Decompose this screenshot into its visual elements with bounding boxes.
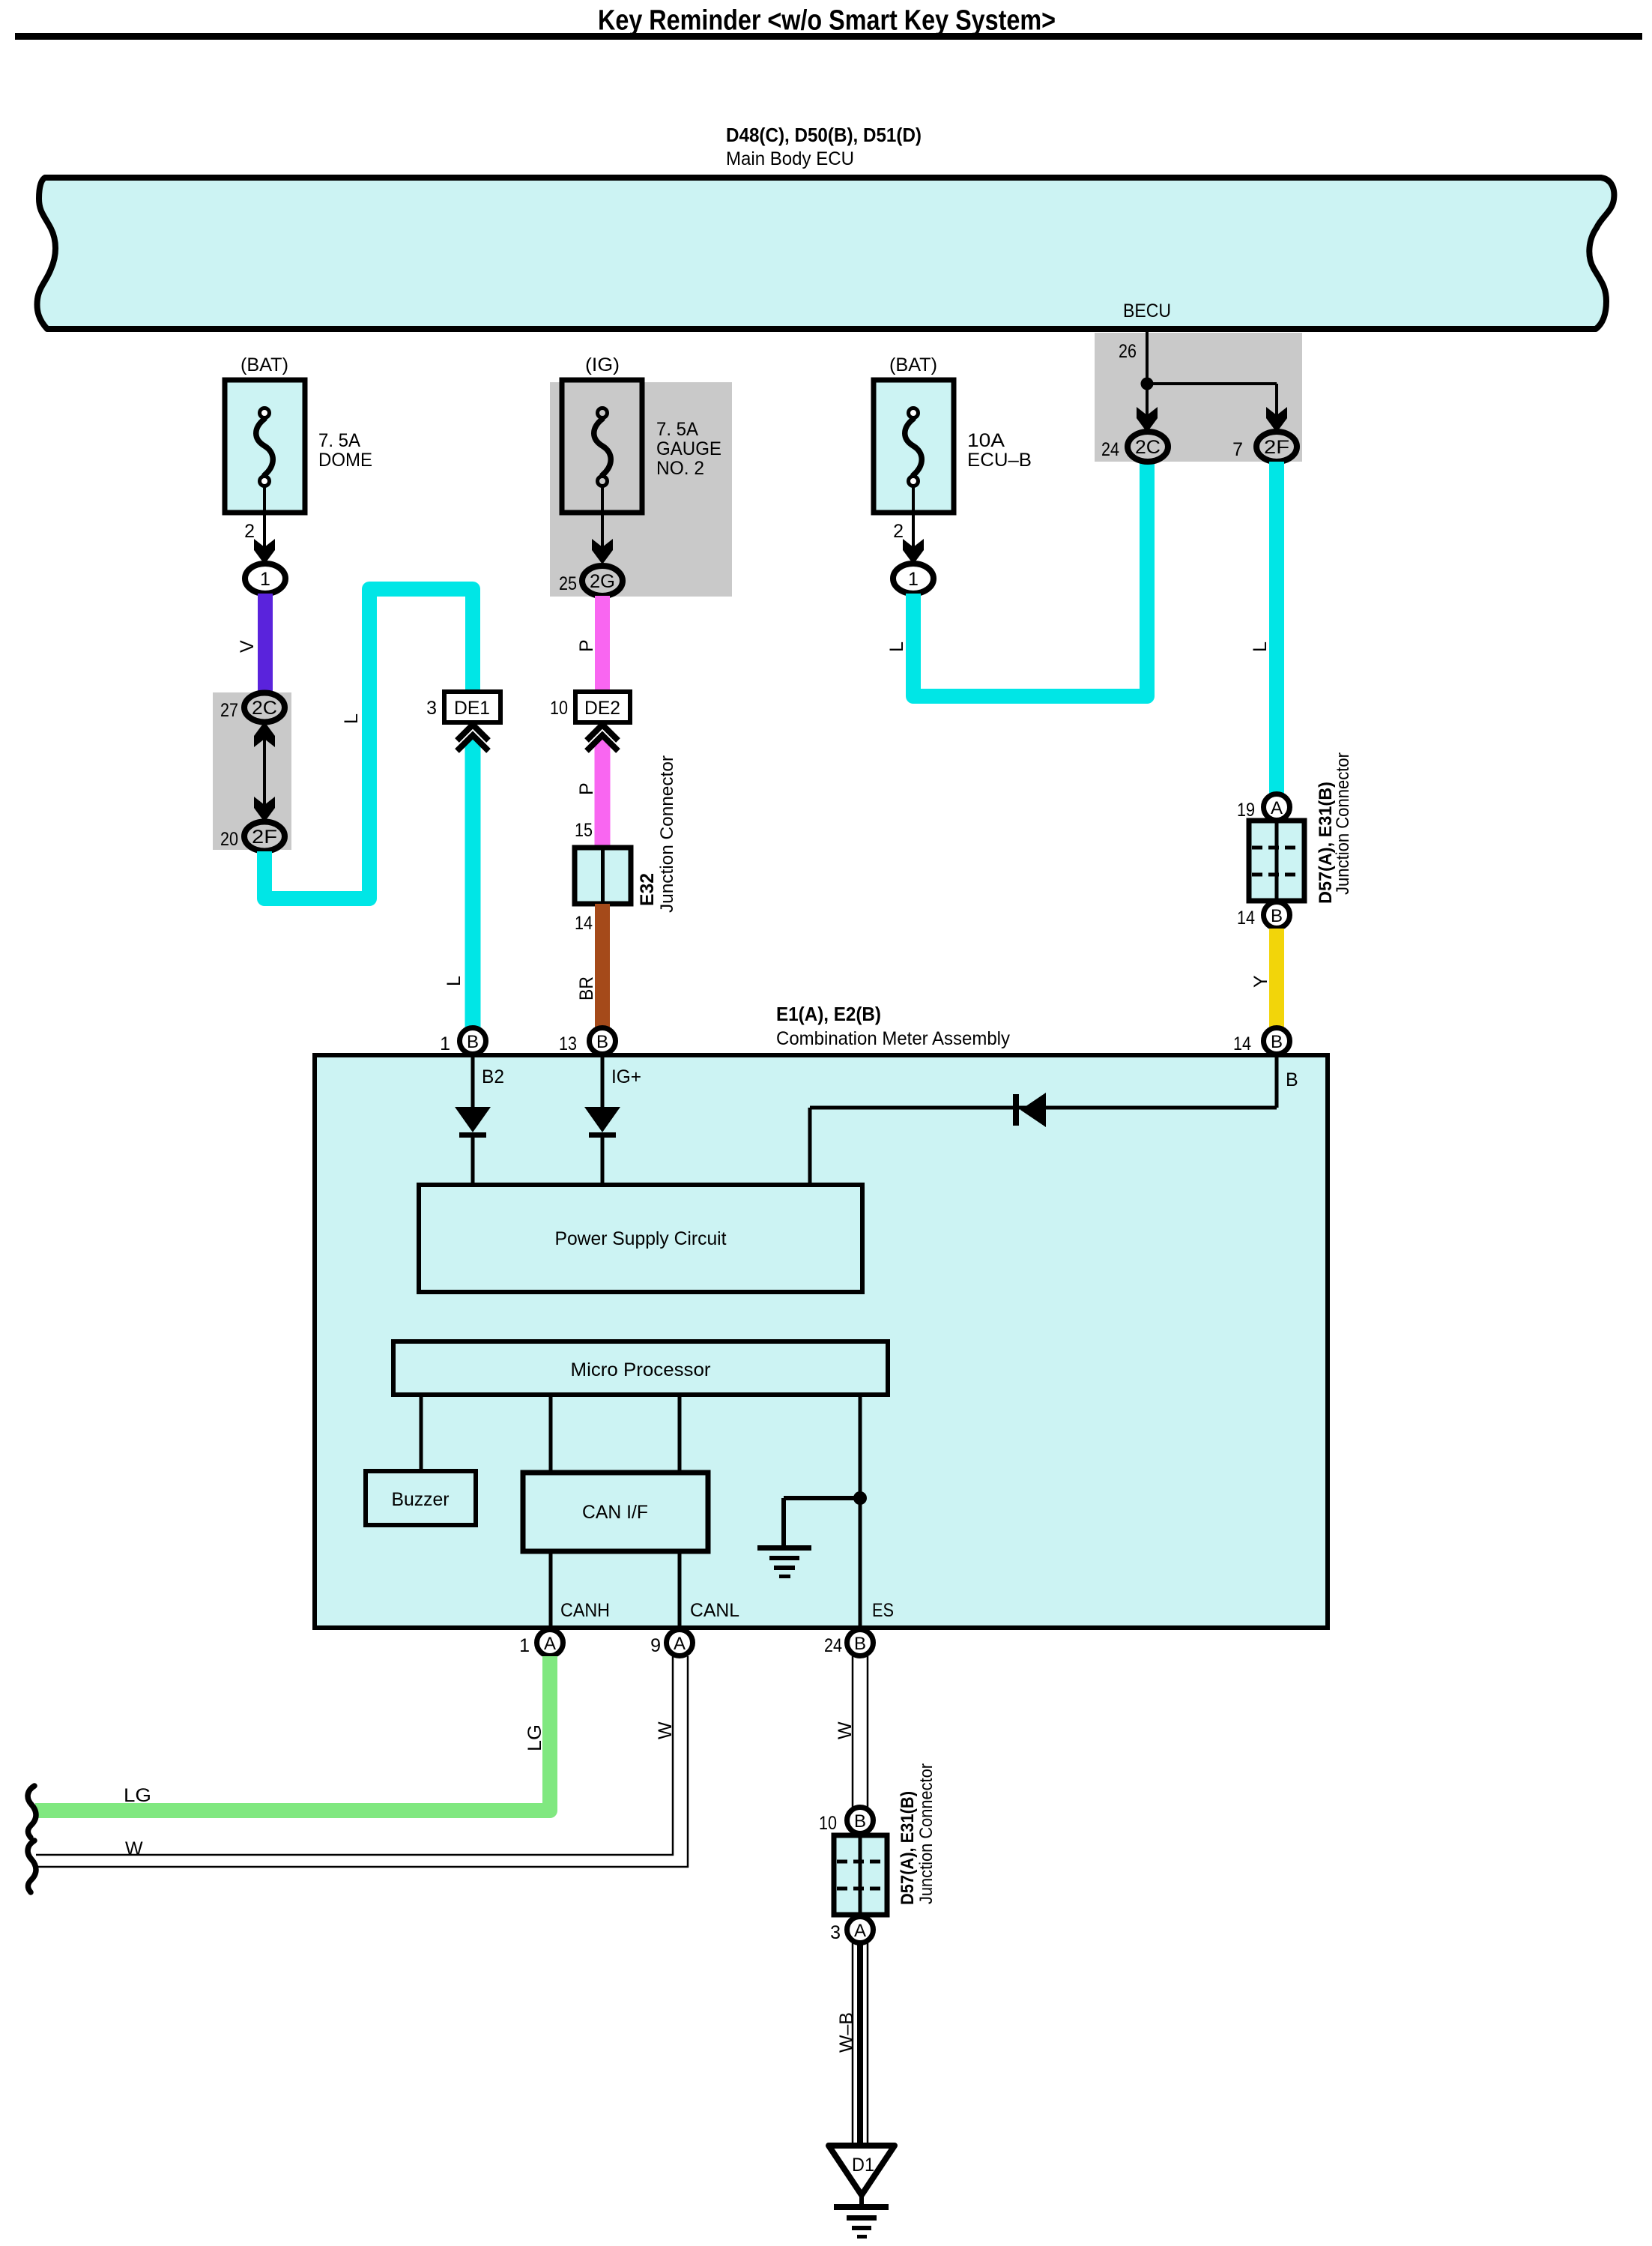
- svg-text:2: 2: [244, 521, 255, 542]
- svg-text:Main Body ECU: Main Body ECU: [726, 148, 854, 169]
- svg-text:LG: LG: [524, 1724, 545, 1751]
- svg-text:D57(A), E31(B): D57(A), E31(B): [898, 1791, 918, 1905]
- wire fuse DOME to connector 1: [263, 486, 266, 552]
- svg-text:Junction Connector: Junction Connector: [916, 1763, 937, 1904]
- svg-text:27: 27: [220, 700, 238, 721]
- svg-text:W: W: [835, 1721, 856, 1739]
- svg-text:A: A: [544, 1634, 556, 1654]
- wire W (white) CANL: [36, 1656, 673, 1855]
- svg-text:Combination Meter Assembly: Combination Meter Assembly: [776, 1028, 1010, 1049]
- svg-text:14: 14: [1233, 1033, 1251, 1054]
- svg-text:10: 10: [550, 698, 568, 719]
- svg-text:BECU: BECU: [1123, 301, 1171, 321]
- svg-text:W–B: W–B: [836, 2012, 857, 2053]
- wire P (pink) DE2 to E32: [595, 740, 611, 848]
- wire L (cyan) DE1 to meter pin 1: [465, 740, 481, 1028]
- fuse 7.5A GAUGE NO.2 (IG): [562, 380, 642, 513]
- connector DE1 pin 3: [444, 692, 500, 722]
- micro processor box: [393, 1341, 888, 1395]
- svg-text:15: 15: [575, 820, 593, 841]
- svg-text:1: 1: [260, 569, 270, 590]
- meter circle B pin 24: [847, 1630, 874, 1656]
- break symbol LG: [28, 1786, 36, 1838]
- svg-text:B2: B2: [482, 1066, 504, 1087]
- svg-text:L: L: [341, 713, 362, 724]
- svg-text:NO. 2: NO. 2: [656, 458, 704, 479]
- svg-text:2F: 2F: [252, 827, 277, 848]
- connector DE2 pin 10: [575, 692, 630, 722]
- svg-text:(IG): (IG): [585, 354, 620, 375]
- svg-text:W: W: [655, 1721, 676, 1739]
- junction connector D57(A) E31(B) circle A pin 19: [1264, 794, 1290, 821]
- connector oval 2F pin 7: [1256, 432, 1297, 462]
- wire MP to CAN IF (CANH): [549, 1395, 553, 1473]
- svg-text:19: 19: [1237, 800, 1255, 821]
- svg-text:Power Supply Circuit: Power Supply Circuit: [555, 1228, 727, 1249]
- power supply circuit box: [419, 1185, 862, 1292]
- svg-text:13: 13: [559, 1033, 577, 1054]
- svg-text:CAN I/F: CAN I/F: [582, 1502, 648, 1523]
- svg-text:Micro Processor: Micro Processor: [571, 1359, 711, 1380]
- svg-text:B: B: [467, 1032, 479, 1052]
- wire W (white) ES to junction connector: [852, 1656, 854, 1808]
- svg-text:24: 24: [824, 1635, 842, 1656]
- wire LG (green) CANH: [35, 1656, 550, 1811]
- svg-text:E1(A), E2(B): E1(A), E2(B): [776, 1003, 881, 1025]
- BECU junction block (gray): [1095, 333, 1302, 462]
- wire L (cyan) 2F to junction connector A: [1269, 462, 1284, 794]
- ES junction dot: [853, 1491, 867, 1505]
- svg-text:ES: ES: [872, 1600, 894, 1621]
- meter circle B pin 1: [460, 1028, 486, 1054]
- diode D-B2: [471, 1054, 475, 1107]
- svg-text:Key Reminder <w/o Smart Key Sy: Key Reminder <w/o Smart Key System>: [598, 5, 1056, 37]
- svg-text:2F: 2F: [1264, 437, 1289, 458]
- svg-text:10: 10: [819, 1813, 837, 1834]
- svg-text:Y: Y: [1250, 975, 1271, 988]
- wire branch to 2F: [1147, 382, 1277, 385]
- svg-text:2G: 2G: [590, 571, 615, 592]
- svg-text:W: W: [125, 1838, 143, 1859]
- svg-text:2: 2: [893, 521, 904, 542]
- svg-text:Buzzer: Buzzer: [392, 1489, 450, 1510]
- junction connector E32: [575, 848, 631, 904]
- svg-text:14: 14: [1237, 908, 1255, 929]
- CAN I/F box: [523, 1473, 708, 1551]
- diode D-IG: [601, 1054, 605, 1107]
- svg-text:L: L: [444, 976, 465, 986]
- svg-text:B: B: [596, 1032, 608, 1052]
- svg-text:P: P: [576, 782, 597, 795]
- svg-text:B: B: [1271, 906, 1283, 926]
- svg-text:A: A: [674, 1634, 686, 1654]
- ground D1: [829, 2146, 895, 2195]
- svg-text:GAUGE: GAUGE: [656, 438, 721, 459]
- wire MP to buzzer: [420, 1395, 423, 1471]
- svg-text:1: 1: [908, 569, 919, 590]
- svg-text:D1: D1: [852, 2155, 874, 2176]
- svg-text:DE2: DE2: [584, 698, 620, 719]
- wire L (cyan) ECU-B to 2C: [913, 462, 1147, 696]
- wire ES: [859, 1395, 862, 1628]
- svg-text:D48(C), D50(B), D51(D): D48(C), D50(B), D51(D): [726, 124, 922, 146]
- svg-text:3: 3: [830, 1922, 841, 1943]
- instrument panel junction block (gray) with 2C/2F: [213, 692, 291, 850]
- svg-text:14: 14: [575, 913, 593, 934]
- wire BR (brown) E32 to meter pin 13: [595, 904, 610, 1028]
- svg-text:2C: 2C: [1135, 437, 1161, 458]
- meter circle B pin 14: [1264, 1028, 1290, 1054]
- connector oval 2C pin 27: [244, 693, 285, 722]
- chevrons below DE2: [587, 725, 618, 740]
- svg-text:IG+: IG+: [611, 1066, 641, 1087]
- svg-text:DOME: DOME: [318, 450, 372, 471]
- svg-text:V: V: [237, 640, 258, 653]
- connector oval 2C pin 24: [1128, 432, 1168, 462]
- svg-text:ECU–B: ECU–B: [967, 450, 1032, 471]
- junction connector D57/E31 box (bottom): [834, 1835, 887, 1915]
- circle B pin 14: [1264, 902, 1290, 929]
- svg-text:25: 25: [559, 573, 577, 594]
- wire W-B to ground: [852, 1943, 854, 2144]
- svg-text:2C: 2C: [252, 698, 277, 719]
- svg-text:L: L: [1250, 642, 1271, 652]
- wire MP to CAN IF (CANL): [678, 1395, 682, 1473]
- svg-text:24: 24: [1101, 439, 1119, 460]
- svg-text:DE1: DE1: [454, 698, 490, 719]
- svg-text:A: A: [1271, 798, 1283, 818]
- svg-text:LG: LG: [124, 1785, 151, 1806]
- wire B into meter with diode: [1275, 1054, 1279, 1108]
- chevrons below DE1: [457, 725, 488, 740]
- connector oval 1 (DOME): [245, 564, 285, 594]
- meter circle A pin 9: [667, 1630, 693, 1656]
- Main Body ECU band (D48/D50/D51): [37, 178, 1615, 329]
- wire L (cyan) 2F to DE1: [264, 589, 473, 899]
- wire V (violet): [258, 594, 273, 694]
- svg-text:B: B: [854, 1634, 866, 1654]
- svg-text:7. 5A: 7. 5A: [656, 419, 698, 440]
- connector oval 2F pin 20: [244, 822, 285, 851]
- svg-text:E32: E32: [637, 873, 658, 906]
- svg-text:9: 9: [650, 1635, 661, 1656]
- wire fuse ECU-B to connector 1: [912, 486, 915, 552]
- svg-text:10A: 10A: [967, 430, 1005, 451]
- junction dot: [1141, 378, 1154, 390]
- svg-text:1: 1: [440, 1033, 450, 1054]
- svg-text:3: 3: [426, 698, 437, 719]
- meter circle A pin 1: [537, 1630, 563, 1656]
- svg-text:1: 1: [519, 1635, 530, 1656]
- svg-text:CANH: CANH: [560, 1600, 610, 1621]
- svg-text:CANL: CANL: [690, 1600, 739, 1621]
- svg-text:P: P: [576, 639, 597, 652]
- svg-text:B: B: [1286, 1069, 1298, 1090]
- svg-text:20: 20: [220, 829, 238, 850]
- title rule: [15, 33, 1642, 40]
- svg-text:26: 26: [1119, 341, 1137, 362]
- buzzer box: [366, 1471, 476, 1525]
- internal ground: [784, 1496, 860, 1500]
- connector oval 1 (ECU-B): [893, 564, 934, 594]
- svg-text:A: A: [854, 1921, 866, 1941]
- svg-text:7: 7: [1232, 439, 1243, 460]
- svg-text:(BAT): (BAT): [240, 354, 288, 375]
- wire CANH below: [549, 1551, 553, 1628]
- meter circle B pin 13: [590, 1028, 616, 1054]
- junction connector circle B pin 10: [847, 1808, 874, 1834]
- svg-text:B: B: [854, 1811, 866, 1832]
- svg-text:7. 5A: 7. 5A: [318, 430, 360, 451]
- wire CANL below: [678, 1551, 682, 1628]
- svg-text:BR: BR: [576, 976, 597, 1000]
- svg-text:L: L: [886, 642, 907, 652]
- svg-text:(BAT): (BAT): [889, 354, 937, 375]
- svg-text:Junction Connector: Junction Connector: [657, 755, 677, 913]
- wire Y (yellow): [1269, 929, 1284, 1028]
- junction connector circle A pin 3: [847, 1917, 874, 1943]
- wire fuse GAUGE to 2G: [601, 486, 604, 552]
- junction connector D57/E31 box: [1249, 821, 1304, 901]
- svg-text:B: B: [1271, 1032, 1283, 1052]
- break symbol W: [28, 1841, 36, 1892]
- svg-text:Junction Connector: Junction Connector: [1333, 752, 1353, 895]
- wire P (pink) 2G to DE2: [595, 596, 610, 692]
- wire 2C to 2F double arrow: [263, 722, 266, 822]
- wire BECU pin 26: [1146, 332, 1149, 417]
